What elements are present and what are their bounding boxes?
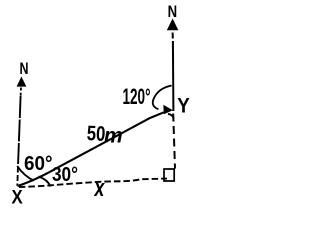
svg-text:N: N xyxy=(20,59,29,78)
north arrowhead at Y xyxy=(167,19,179,31)
svg-text:60°: 60° xyxy=(24,153,53,175)
north line at X (main part) xyxy=(18,96,20,158)
svg-text:50: 50 xyxy=(86,122,106,146)
dashed vertical line from Y to foot xyxy=(173,114,175,169)
svg-text:m: m xyxy=(104,125,123,148)
north line at Y (main part) xyxy=(172,41,175,111)
small arc from XY down to dashed vertical at Y xyxy=(168,114,174,119)
svg-text:Y: Y xyxy=(177,94,190,117)
svg-text:N: N xyxy=(168,2,178,21)
north line at X (lower dashed part) xyxy=(17,158,18,186)
svg-text:120°: 120° xyxy=(123,84,151,109)
north arrowhead at X xyxy=(17,77,27,87)
angle arc 30 at X xyxy=(39,177,51,187)
north line at Y xyxy=(172,33,174,39)
right angle mark at foot xyxy=(164,169,174,181)
angle arc 120 at Y xyxy=(153,86,172,110)
arrowhead on XY at Y end xyxy=(163,105,173,115)
dashed horizontal line from X to foot of perpendicular xyxy=(19,179,167,187)
north line at X (upper dotted part) xyxy=(20,88,22,97)
svg-text:30°: 30° xyxy=(52,164,78,186)
svg-text:X: X xyxy=(12,187,23,208)
line XY xyxy=(18,112,164,186)
svg-text:x: x xyxy=(93,175,105,202)
angle arc 60 at X xyxy=(17,166,34,181)
